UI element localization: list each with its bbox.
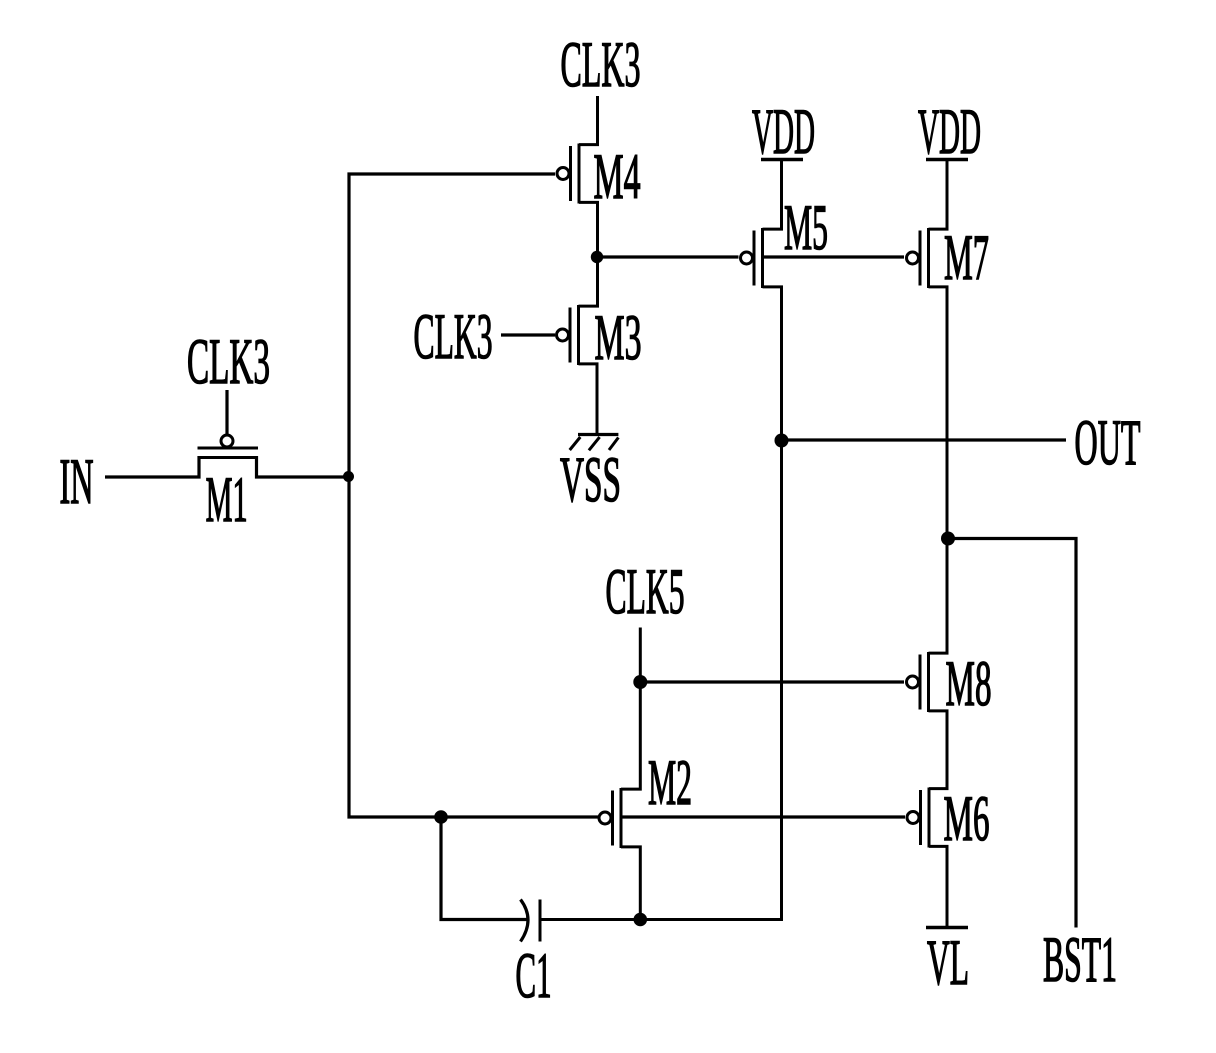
svg-text:M3: M3 [595,302,642,374]
svg-text:CLK3: CLK3 [561,29,641,101]
svg-text:M5: M5 [784,192,828,264]
svg-text:VSS: VSS [560,444,621,516]
svg-text:M2: M2 [648,747,692,819]
svg-text:M1: M1 [206,464,248,536]
svg-text:VDD: VDD [752,96,815,168]
svg-text:M8: M8 [946,648,992,720]
svg-text:M4: M4 [594,141,641,213]
svg-text:BST1: BST1 [1043,924,1117,996]
svg-text:OUT: OUT [1075,407,1141,479]
svg-text:CLK3: CLK3 [414,301,493,373]
svg-text:CLK3: CLK3 [187,326,270,398]
svg-text:M6: M6 [944,783,990,855]
svg-text:CLK5: CLK5 [606,556,685,628]
svg-text:C1: C1 [516,940,552,1012]
svg-text:IN: IN [60,446,94,518]
svg-text:M7: M7 [944,222,989,294]
svg-text:VDD: VDD [918,96,981,168]
svg-text:VL: VL [927,927,969,999]
